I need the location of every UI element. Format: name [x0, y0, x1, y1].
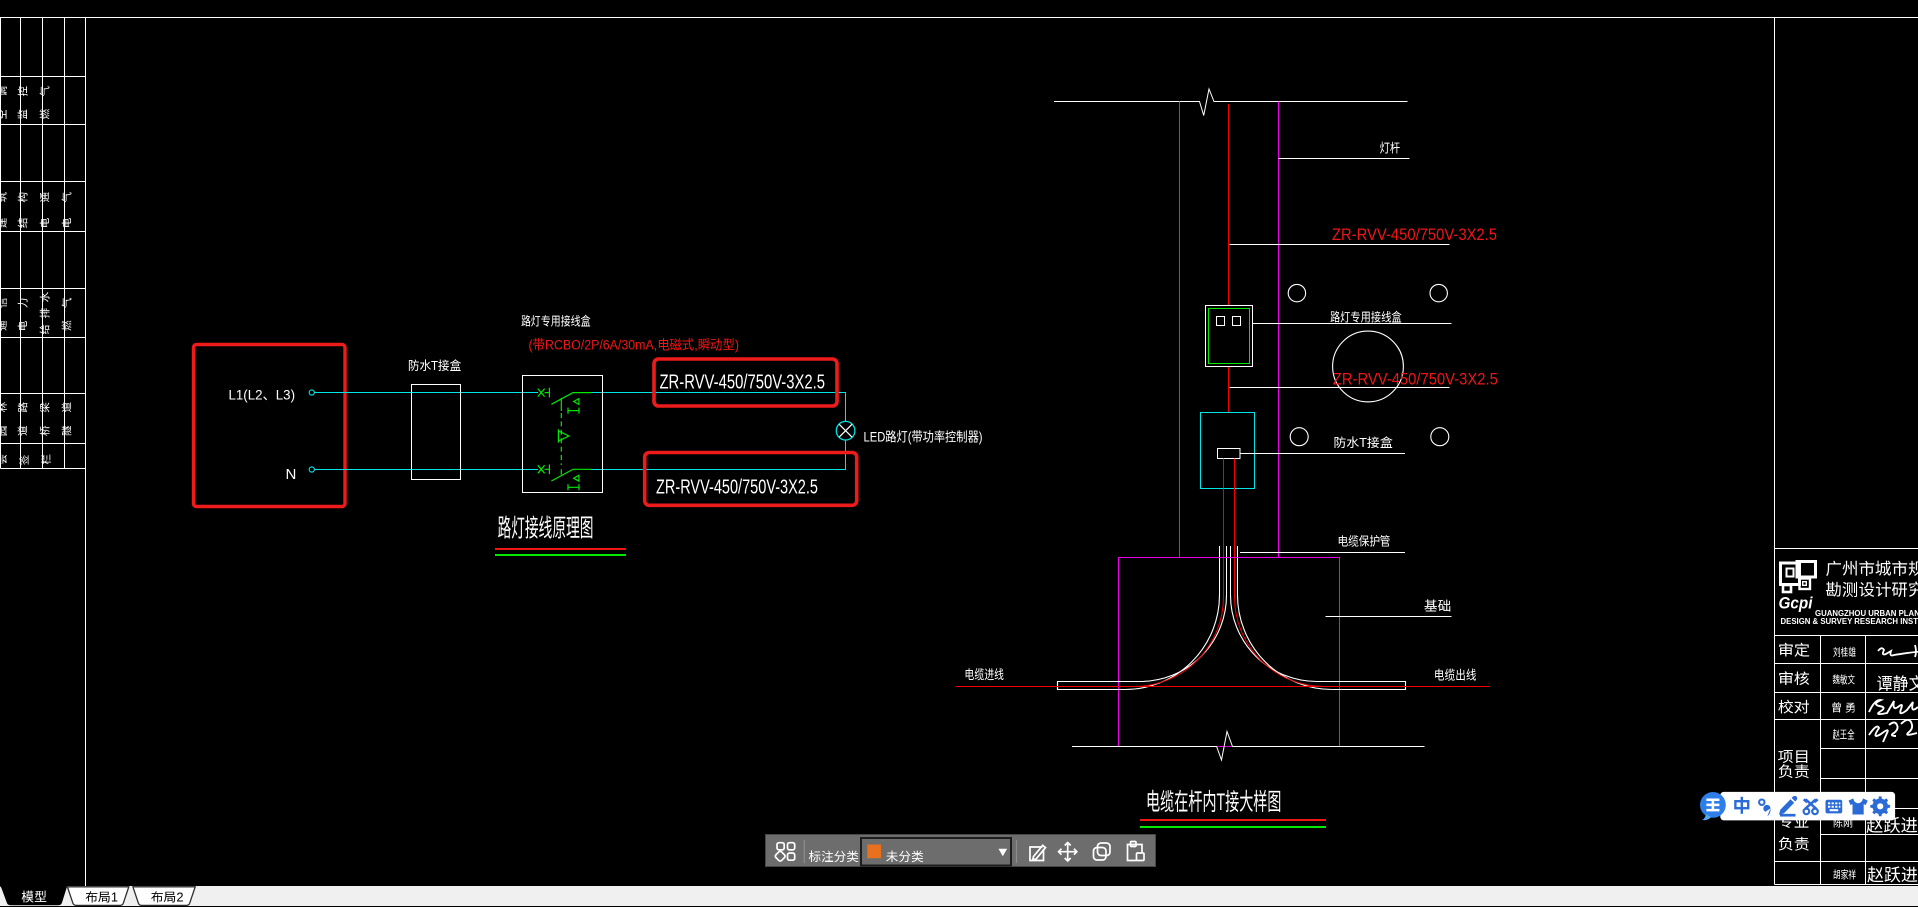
svg-text:赵王全: 赵王全 — [1833, 729, 1855, 742]
svg-text:刘桂雄: 刘桂雄 — [1833, 646, 1856, 659]
svg-text:桥梁: 桥梁 — [40, 389, 52, 436]
terminal N — [309, 467, 314, 472]
svg-text:曾 勇: 曾 勇 — [1831, 702, 1856, 715]
T-joint rectangle — [1218, 449, 1241, 459]
title block column lines — [1820, 636, 1822, 885]
svg-text:灯杆: 灯杆 — [1380, 141, 1401, 156]
svg-text:谭静文: 谭静文 — [1877, 675, 1918, 694]
move icon — [1059, 843, 1077, 862]
icon pencil — [1779, 799, 1794, 815]
svg-text:电力: 电力 — [18, 285, 30, 331]
breaker pole 2: I-bar mark — [568, 484, 579, 490]
junction box inner (green) — [1209, 309, 1250, 364]
tab 布局1 — [67, 886, 128, 905]
dropdown arrow — [999, 849, 1008, 856]
right conduit curve — [1230, 595, 1405, 690]
junction box terminal 1 — [1217, 317, 1225, 326]
svg-text:勘测设计研究院: 勘测设计研究院 — [1826, 580, 1918, 599]
svg-text:园林: 园林 — [0, 389, 9, 436]
svg-text:DESIGN & SURVEY RESEARCH INSTI: DESIGN & SURVEY RESEARCH INSTITUTE — [1781, 617, 1918, 626]
svg-text:防水T接盒: 防水T接盒 — [408, 359, 461, 373]
linkage dashed line — [560, 413, 562, 465]
left signature table right border — [85, 18, 87, 887]
svg-text:电缆进线: 电缆进线 — [965, 667, 1005, 682]
pole label leader — [1279, 158, 1410, 160]
svg-text:燃气: 燃气 — [39, 74, 52, 120]
icon apostrophe — [1759, 800, 1764, 805]
svg-text:负责: 负责 — [1778, 764, 1810, 781]
cable in pole (red) — [1228, 104, 1230, 449]
svg-text:空调: 空调 — [0, 74, 9, 120]
annotation toolbar — [765, 834, 1156, 867]
svg-text:建筑: 建筑 — [0, 177, 9, 228]
institute logo mark — [1781, 562, 1816, 593]
LED lamp symbol cross — [839, 424, 852, 437]
title block row lines — [1775, 635, 1918, 637]
wire phase L (cyan) — [314, 392, 538, 394]
svg-text:签: 签 — [19, 454, 31, 465]
svg-text:监控: 监控 — [18, 74, 30, 120]
wire neutral (cyan) — [314, 469, 538, 471]
wire neutral after breaker to lamp — [591, 440, 846, 470]
tab 布局2 — [133, 886, 195, 905]
foundation rectangle (magenta) — [1119, 558, 1340, 747]
svg-text:赵跃进: 赵跃进 — [1867, 865, 1918, 885]
title block top line — [1775, 548, 1918, 550]
breaker pole 2: stub and contact tick — [545, 465, 550, 475]
svg-text:路灯专用接线盒: 路灯专用接线盒 — [521, 315, 591, 329]
svg-text:栏: 栏 — [41, 454, 53, 465]
right title underline red — [1140, 819, 1326, 821]
right cable curve (red) — [1235, 597, 1325, 687]
svg-text:LED路灯(带功率控制器): LED路灯(带功率控制器) — [864, 429, 983, 444]
svg-text:电缆保护管: 电缆保护管 — [1338, 534, 1391, 548]
signature 项目负责 — [1869, 720, 1917, 742]
svg-text:审核: 审核 — [1778, 670, 1810, 688]
svg-text:ZR-RVV-450/750V-3X2.5: ZR-RVV-450/750V-3X2.5 — [1332, 225, 1497, 244]
breaker pole 2: trip triangle — [574, 475, 579, 481]
edit icon — [1030, 845, 1046, 860]
icon scissors — [1804, 809, 1810, 815]
grid icon — [775, 843, 795, 862]
breaker pole 1: stub and contact tick — [545, 388, 550, 398]
svg-text:基础: 基础 — [1424, 598, 1452, 613]
wire phase after breaker to lamp — [591, 393, 846, 422]
svg-text:路灯接线原理图: 路灯接线原理图 — [498, 515, 594, 543]
IME logo bubble — [1700, 792, 1726, 818]
ground line top with break — [1054, 89, 1408, 116]
icon 中 — [1735, 797, 1748, 814]
lamp pole right side (magenta) — [1278, 102, 1280, 558]
orange swatch — [867, 845, 881, 859]
T-box label leader — [1240, 453, 1405, 455]
left signature table verticals — [0, 18, 2, 469]
left cable curve (red) — [1134, 597, 1224, 687]
svg-text:电缆在杆内T接大样图: 电缆在杆内T接大样图 — [1146, 789, 1282, 816]
svg-text:通信: 通信 — [0, 285, 9, 331]
title underline red — [495, 548, 626, 550]
junction box terminal 2 — [1233, 317, 1241, 326]
cable label box top (red) — [654, 359, 837, 406]
big hand hole circle — [1333, 331, 1404, 402]
ground line bottom with break — [1072, 732, 1425, 761]
separator 1 — [803, 840, 805, 863]
svg-text:电缆出线: 电缆出线 — [1434, 668, 1477, 683]
breaker pole 1: blade — [551, 393, 572, 411]
svg-text:路灯专用接线盒: 路灯专用接线盒 — [1330, 310, 1402, 324]
terminal L1 — [309, 390, 314, 395]
svg-text:电气: 电气 — [62, 177, 74, 228]
cable spec 1 leader — [1230, 244, 1450, 246]
foundation label leader — [1326, 616, 1452, 618]
sheet top border line — [0, 17, 1918, 19]
icon shirt — [1849, 798, 1868, 814]
svg-text:广州市城市规划: 广州市城市规划 — [1826, 559, 1918, 578]
bolt circle top-right — [1430, 284, 1447, 301]
separator 2 — [1016, 840, 1018, 863]
svg-text:燃气: 燃气 — [61, 285, 74, 331]
IME logo glyph — [1706, 800, 1719, 810]
bolt circle top-left — [1288, 284, 1305, 301]
dropdown box — [861, 838, 1011, 866]
svg-text:道路: 道路 — [17, 389, 30, 436]
cable label box bottom (red) — [645, 453, 857, 506]
incoming/outgoing cable line (red) — [956, 686, 1490, 688]
svg-text:N: N — [286, 466, 297, 483]
bolt circle bottom-right — [1431, 428, 1449, 446]
left signature table horizontals — [1, 76, 86, 78]
icon keyboard — [1826, 800, 1843, 814]
bottom layout tab bar — [0, 886, 1918, 907]
breaker pole 1: out stub — [573, 392, 591, 394]
breaker box outline — [523, 376, 603, 493]
svg-text:会: 会 — [0, 454, 9, 465]
conduit stub walls — [1220, 546, 1238, 595]
svg-text:Gcpi: Gcpi — [1779, 594, 1814, 613]
lamp pole left side (magenta) — [1179, 102, 1181, 558]
breaker pole 2: blade — [551, 469, 572, 481]
LED lamp symbol circle — [836, 421, 855, 440]
svg-text:审定: 审定 — [1778, 642, 1810, 659]
tab 模型 (active) — [0, 886, 67, 905]
dropdown text 未分类 — [886, 846, 924, 865]
breaker pole 2: out stub — [573, 468, 591, 470]
signature 审定 — [1878, 645, 1918, 657]
breaker pole 1: fuse cross — [538, 389, 545, 397]
svg-text:防水T接盒: 防水T接盒 — [1334, 436, 1394, 450]
cable pair down from T-joint (red) — [1223, 459, 1225, 598]
waterproof T-box rectangle — [412, 385, 461, 480]
breaker pole 1: I-bar mark — [568, 408, 579, 414]
svg-text:布局2: 布局2 — [151, 890, 184, 904]
svg-text:模型: 模型 — [22, 889, 48, 904]
bolt circle bottom-left — [1290, 428, 1308, 446]
middle trip triangle — [558, 429, 569, 442]
svg-text:电通: 电通 — [40, 177, 52, 228]
svg-text:ZR-RVV-450/750V-3X2.5: ZR-RVV-450/750V-3X2.5 — [1333, 369, 1498, 388]
conduit protection pipe label leader — [1240, 552, 1405, 554]
svg-text:校对: 校对 — [1778, 698, 1810, 716]
sheet right title-block border — [1774, 18, 1776, 885]
left conduit curve — [1058, 595, 1227, 690]
icon gear — [1870, 796, 1890, 816]
svg-text:布局1: 布局1 — [85, 890, 118, 904]
svg-text:L1(L2、L3): L1(L2、L3) — [229, 387, 296, 403]
right title underline green — [1140, 826, 1326, 828]
svg-text:隧道: 隧道 — [61, 389, 74, 436]
cable spec 2 leader — [1230, 387, 1450, 389]
signature 校对 — [1869, 700, 1918, 714]
junction box label leader — [1253, 323, 1452, 325]
svg-text:ZR-RVV-450/750V-3X2.5: ZR-RVV-450/750V-3X2.5 — [660, 372, 826, 394]
waterproof T-box (cyan) — [1201, 413, 1255, 489]
svg-text:给排水: 给排水 — [39, 287, 52, 335]
svg-text:魏敏文: 魏敏文 — [1833, 674, 1856, 687]
IME bar white background — [1720, 792, 1895, 821]
toolbar label 标注分类 — [809, 846, 859, 865]
title underline green — [495, 554, 626, 556]
power source box (red) — [194, 345, 346, 507]
breaker pole 1: trip triangle — [574, 399, 579, 405]
svg-text:负责: 负责 — [1778, 837, 1810, 854]
svg-text:胡家祥: 胡家祥 — [1833, 869, 1856, 882]
IME floating bar — [1690, 780, 1918, 830]
svg-text:结构: 结构 — [18, 177, 30, 228]
svg-text:ZR-RVV-450/750V-3X2.5: ZR-RVV-450/750V-3X2.5 — [656, 476, 818, 498]
breaker pole 2: fuse cross — [538, 465, 545, 473]
paste icon — [1128, 842, 1145, 861]
junction box outer — [1206, 306, 1253, 367]
svg-text:(带RCBO/2P/6A/30mA,电磁式,瞬动型): (带RCBO/2P/6A/30mA,电磁式,瞬动型) — [529, 337, 740, 352]
copy icon — [1094, 843, 1111, 860]
